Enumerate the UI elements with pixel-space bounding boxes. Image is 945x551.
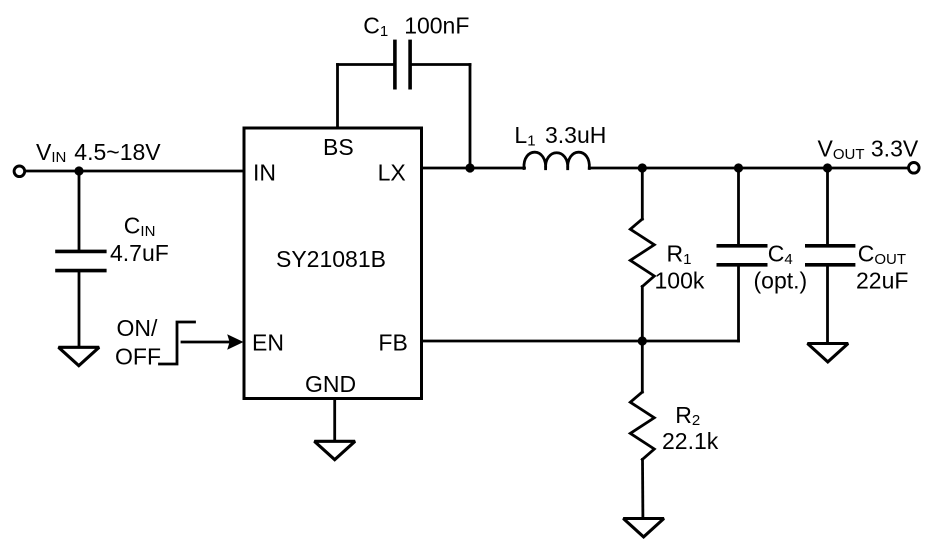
node ON/OFF step waveform symbol [160, 322, 195, 364]
node VOUT C4 junction [734, 163, 743, 172]
wire COUT bottom lead [826, 265, 829, 344]
wire inductor to VOUT terminal [589, 167, 907, 170]
wire FB pin to feedback node [422, 340, 739, 343]
wire VIN terminal to IN pin [26, 170, 244, 173]
capacitor COUT [807, 246, 854, 265]
wire R2 top lead [641, 341, 644, 392]
resistor R1 [630, 219, 654, 287]
svg-text:3.3uH: 3.3uH [545, 122, 606, 148]
svg-text:BS: BS [323, 134, 354, 160]
capacitor C4 [718, 246, 765, 265]
IC U1 SY21081B body [244, 128, 422, 399]
svg-text:4.7uF: 4.7uF [110, 240, 169, 266]
svg-text:OFF: OFF [115, 343, 161, 369]
wire R1 top lead [641, 168, 644, 219]
terminal VIN [14, 166, 25, 177]
ground IC GND [314, 441, 355, 459]
node VOUT R1 junction [638, 163, 647, 172]
svg-text:4.5~18V: 4.5~18V [74, 139, 161, 165]
wire C1 right plate to riser [410, 63, 470, 66]
wire R1 bottom lead [641, 287, 644, 342]
svg-text:ON/: ON/ [117, 315, 159, 341]
svg-text:IN: IN [253, 160, 276, 186]
svg-text:22uF: 22uF [856, 268, 908, 294]
node VIN junction [74, 166, 83, 175]
wire EN arrow shaft [182, 341, 229, 344]
wire C4 top lead [737, 168, 740, 246]
wire LX pin to inductor [422, 167, 525, 170]
wire GND pin stub [333, 399, 336, 442]
ground CIN [59, 347, 100, 365]
wire C4 bottom lead [737, 265, 740, 341]
wire EN arrowhead [227, 334, 243, 350]
resistor R2 [630, 392, 654, 460]
inductor L1 [524, 152, 589, 170]
svg-text:SY21081B: SY21081B [276, 246, 386, 272]
wire riser down to LX net [469, 65, 472, 169]
wire COUT top lead [826, 168, 829, 246]
svg-text:22.1k: 22.1k [662, 428, 719, 454]
svg-text:100nF: 100nF [404, 13, 469, 39]
wire CIN bottom lead [78, 271, 81, 348]
ground R2 [623, 519, 664, 537]
ground COUT [808, 344, 849, 362]
svg-text:EN: EN [252, 330, 284, 356]
svg-text:(opt.): (opt.) [754, 268, 808, 294]
wire BS to C1 left plate [338, 63, 395, 66]
svg-text:GND: GND [305, 371, 356, 397]
wire CIN top lead [78, 171, 81, 251]
svg-text:LX: LX [378, 160, 406, 186]
wire BS pin stub [336, 65, 339, 129]
node LX riser junction [465, 163, 474, 172]
svg-text:100k: 100k [655, 268, 705, 294]
wire R2 bottom lead [641, 460, 644, 519]
terminal VOUT [909, 163, 920, 174]
svg-text:FB: FB [378, 330, 407, 356]
capacitor C1 [395, 41, 410, 87]
node FB junction [638, 336, 647, 345]
svg-text:3.3V: 3.3V [871, 136, 919, 162]
node VOUT COUT junction [823, 163, 832, 172]
capacitor CIN [57, 251, 105, 270]
